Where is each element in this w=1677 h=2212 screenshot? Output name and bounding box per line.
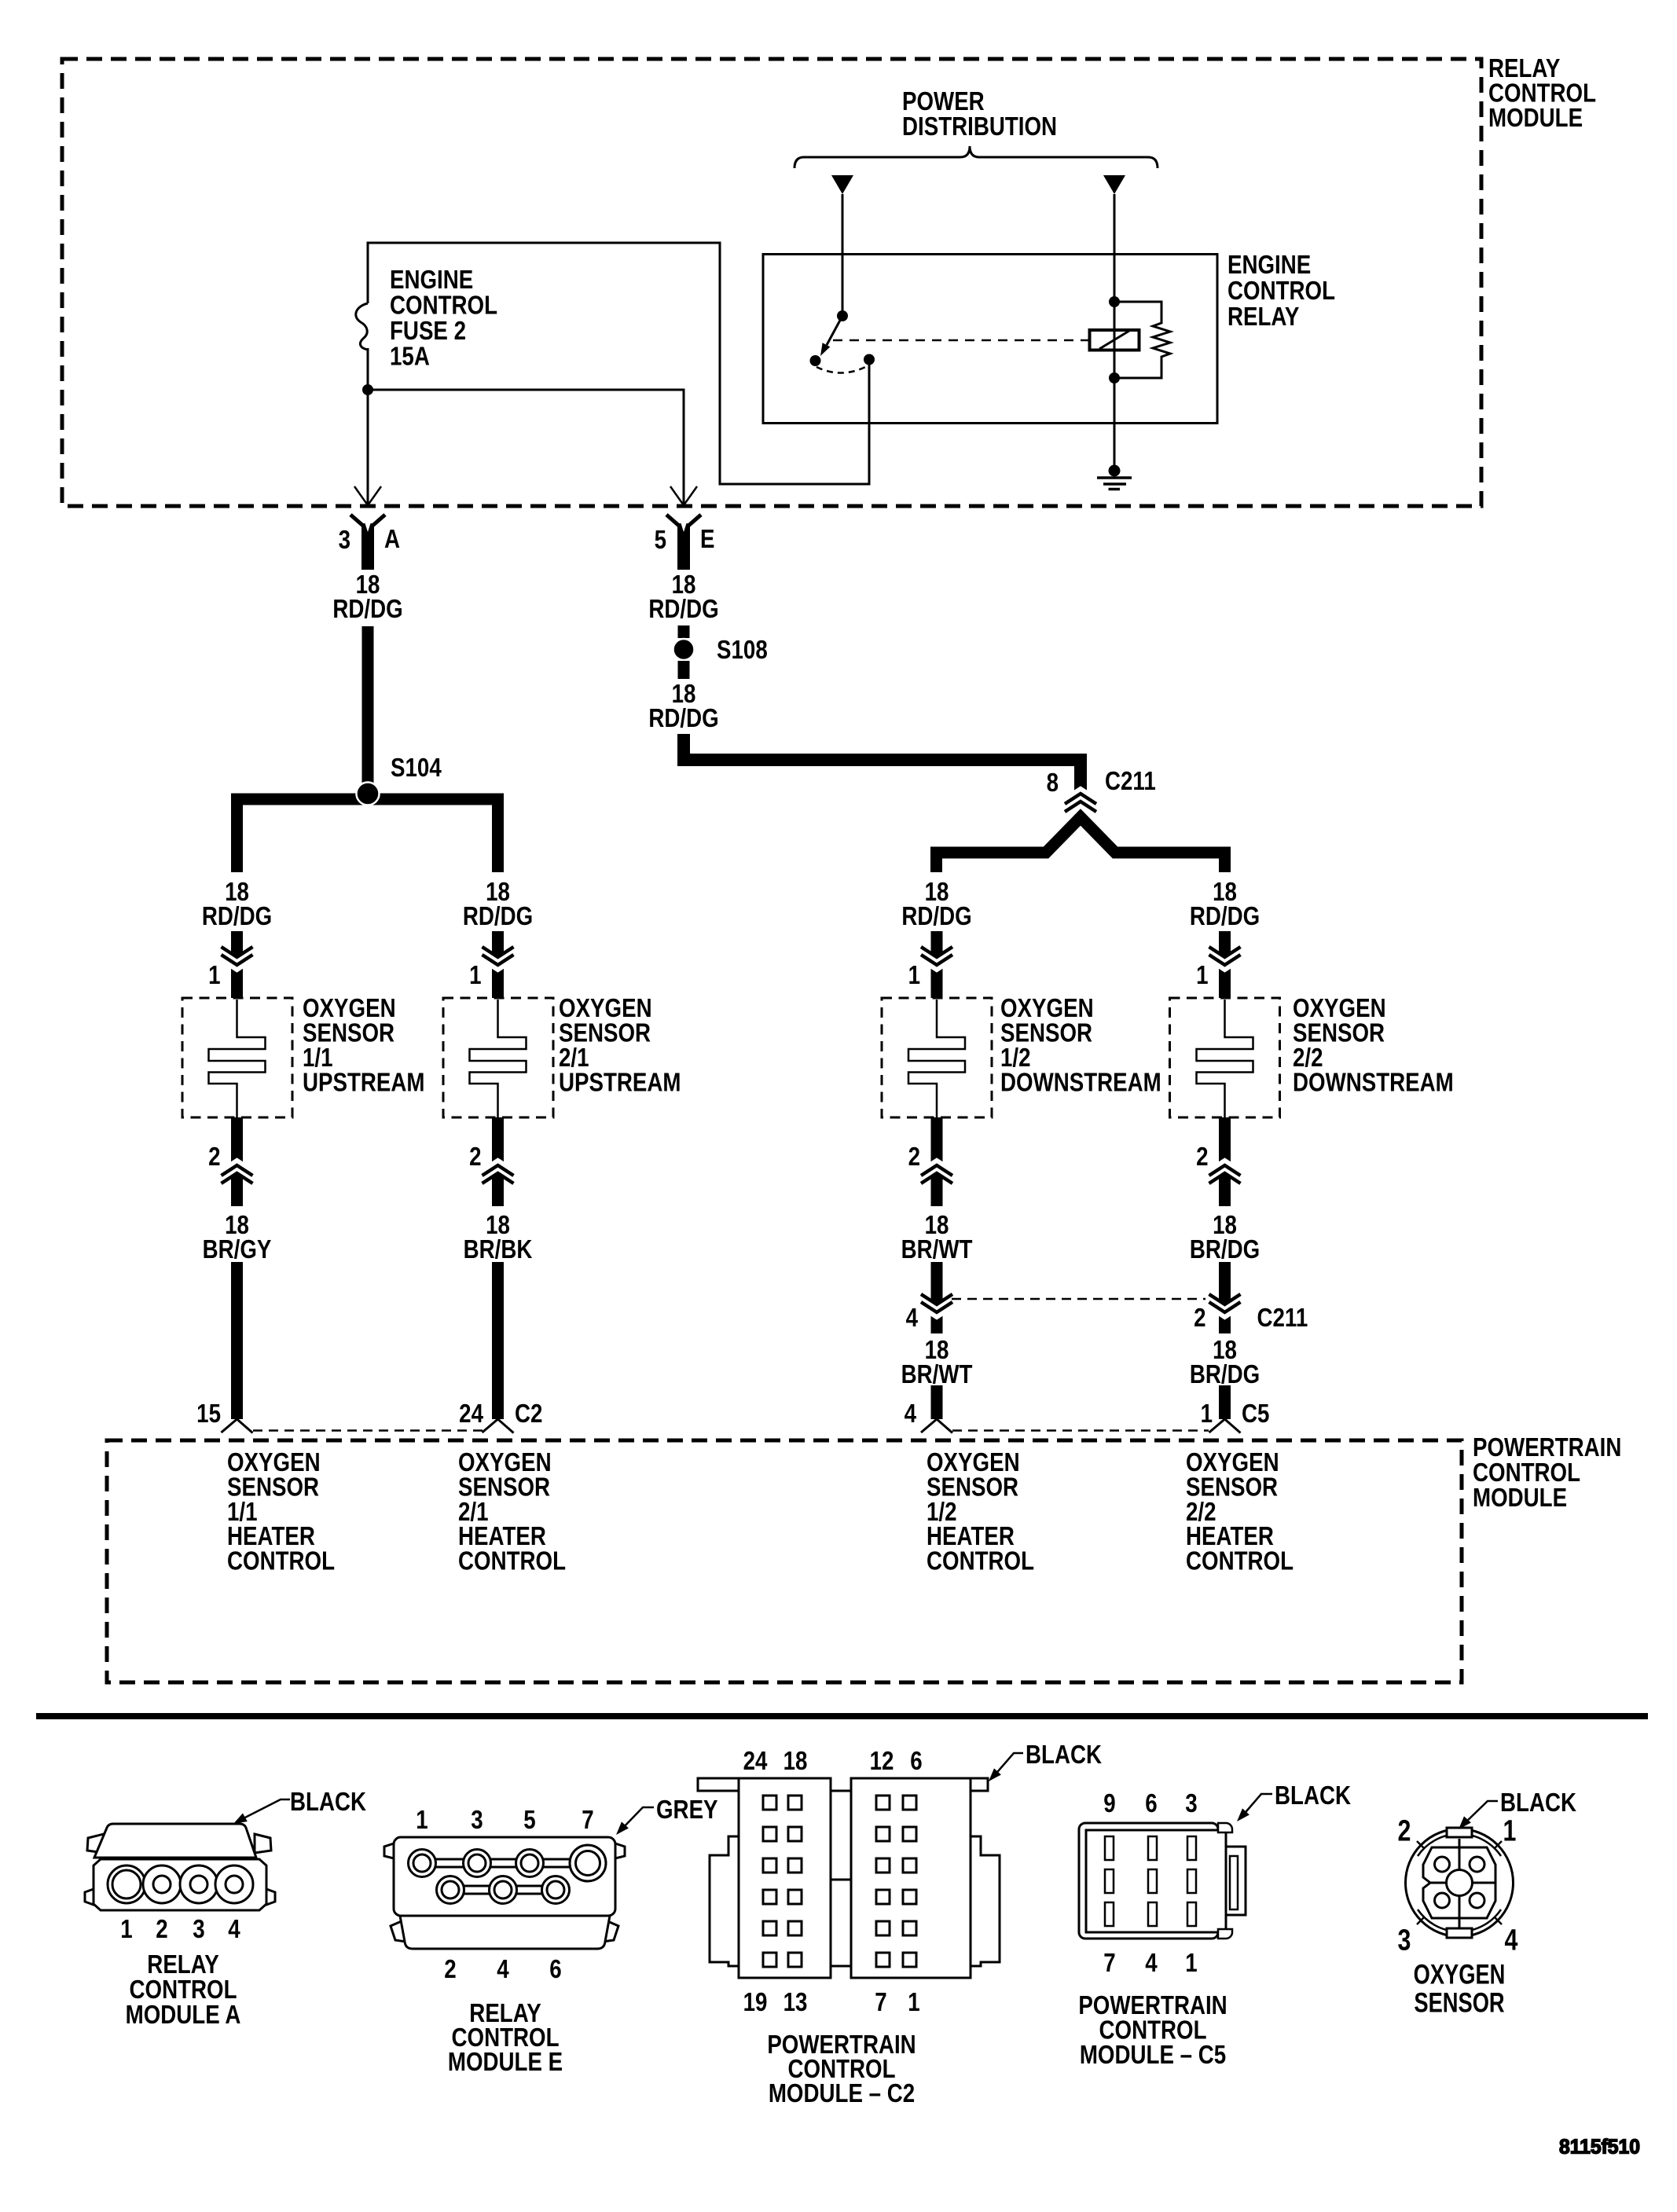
- wire from left feed to relay switch: [842, 194, 844, 314]
- pin label 1: [469, 961, 481, 990]
- svg-text:DOWNSTREAM: DOWNSTREAM: [1000, 1068, 1161, 1097]
- svg-text:4: 4: [497, 1955, 508, 1984]
- PCM connector entry pin 4: [921, 1419, 952, 1433]
- svg-text:RD/DG: RD/DG: [648, 704, 718, 733]
- C211 connector (pin 8) tent and bus to branches 3 and 4: [937, 817, 1225, 872]
- svg-text:2: 2: [1196, 1143, 1208, 1172]
- arrow into pin E: [670, 486, 697, 505]
- wire through coil: [1114, 302, 1116, 378]
- pin label 1: [1196, 961, 1208, 990]
- PCM connector entry pin 24: [483, 1419, 514, 1433]
- wire from right feed to relay coil: [1114, 194, 1116, 302]
- svg-text:2: 2: [469, 1143, 481, 1172]
- svg-text:SENSOR: SENSOR: [1414, 1987, 1505, 2018]
- svg-text:3: 3: [1185, 1789, 1197, 1818]
- svg-text:RD/DG: RD/DG: [1190, 902, 1260, 931]
- svg-text:1: 1: [208, 961, 220, 990]
- pin labels 24 18 12 6: [743, 1747, 923, 1776]
- svg-text:15: 15: [196, 1399, 221, 1429]
- wire label 18 RD/DG (branch 1/2 downstream): [901, 878, 971, 931]
- connector POWERTRAIN CONTROL MODULE C5: [1079, 1823, 1246, 1939]
- svg-text:C211: C211: [1257, 1304, 1308, 1333]
- svg-text:1: 1: [416, 1806, 428, 1835]
- label RELAY CONTROL MODULE: [1488, 54, 1596, 133]
- svg-text:BR/GY: BR/GY: [203, 1235, 272, 1264]
- wire into oxygen sensor 2/1 upstream: [492, 931, 504, 998]
- power feed triangle left: [831, 175, 853, 194]
- label OXYGEN SENSOR 1/2 downstream: [1000, 994, 1161, 1097]
- callout GREY (module E): [616, 1796, 718, 1835]
- label RELAY CONTROL MODULE A: [126, 1950, 241, 2030]
- svg-text:OXYGEN: OXYGEN: [1414, 1959, 1506, 1990]
- label C2 at PCM: [515, 1399, 542, 1429]
- brace under POWER DISTRIBUTION: [794, 146, 1158, 168]
- svg-text:UPSTREAM: UPSTREAM: [303, 1068, 425, 1097]
- svg-text:1: 1: [1503, 1814, 1517, 1847]
- svg-text:BR/DG: BR/DG: [1190, 1235, 1260, 1264]
- connector RELAY CONTROL MODULE E (grey 7-way): [384, 1837, 625, 1949]
- connector OXYGEN SENSOR (black round 4-way): [1406, 1828, 1514, 1938]
- S104 bus wire to branches 1 and 2: [237, 799, 498, 872]
- wire into oxygen sensor 1/1 upstream: [231, 931, 243, 998]
- svg-text:ENGINE: ENGINE: [1227, 251, 1311, 280]
- label OXYGEN SENSOR 2/1 HEATER CONTROL: [458, 1448, 566, 1576]
- heater control wire to PCM (BR/BK): [492, 1262, 504, 1419]
- svg-text:6: 6: [910, 1747, 922, 1776]
- wire label 18 RD/DG (below S108): [648, 680, 718, 733]
- svg-text:RD/DG: RD/DG: [332, 595, 402, 624]
- power feed triangle right: [1103, 175, 1125, 194]
- wire from fuse top to relay common contact: [368, 243, 869, 484]
- svg-text:3: 3: [193, 1915, 204, 1944]
- svg-text:BLACK: BLACK: [1275, 1781, 1351, 1810]
- dashed connector link C2 (pins 15-24): [253, 1429, 483, 1432]
- label OXYGEN SENSOR 1/1 HEATER CONTROL: [227, 1448, 335, 1576]
- label ENGINE CONTROL RELAY: [1227, 251, 1335, 332]
- wire label 18 RD/DG (branch 2/1 upstream): [463, 878, 533, 931]
- relay switch arm with arrow: [820, 316, 842, 356]
- oxygen sensor 2/1 upstream dashed box: [443, 998, 553, 1117]
- pin label 1: [208, 961, 220, 990]
- svg-text:RD/DG: RD/DG: [202, 902, 272, 931]
- wire label 18 BR/WT: [901, 1211, 973, 1264]
- svg-text:19: 19: [743, 1988, 768, 2017]
- wire label 18 RD/DG (branch 2/2 downstream): [1190, 878, 1260, 931]
- wire label 18 BR/BK: [464, 1211, 533, 1264]
- pin label 1: [908, 961, 920, 990]
- svg-text:24: 24: [459, 1399, 483, 1429]
- svg-text:2: 2: [208, 1143, 220, 1172]
- svg-text:4: 4: [1505, 1924, 1518, 1957]
- wire label 18 BR/WT (below C211): [901, 1336, 973, 1389]
- relay coil box: [1090, 330, 1139, 350]
- PCM connector entry pin 1: [1209, 1419, 1241, 1433]
- connector pin 5 E: [666, 515, 701, 570]
- POWERTRAIN CONTROL MODULE dashed box: [107, 1440, 1462, 1682]
- callout BLACK (oxygen sensor): [1459, 1788, 1576, 1829]
- svg-text:C2: C2: [515, 1399, 542, 1429]
- svg-text:MODULE A: MODULE A: [126, 2001, 241, 2030]
- wire label 18 RD/DG (branch 1/1 upstream): [202, 878, 272, 931]
- svg-text:3: 3: [339, 526, 350, 555]
- svg-text:C211: C211: [1105, 767, 1156, 796]
- svg-text:CONTROL: CONTROL: [390, 291, 497, 320]
- svg-text:E: E: [700, 525, 714, 554]
- svg-text:3: 3: [1398, 1924, 1411, 1957]
- svg-text:CONTROL: CONTROL: [1227, 277, 1335, 306]
- svg-text:FUSE 2: FUSE 2: [390, 317, 466, 346]
- svg-text:18: 18: [783, 1747, 808, 1776]
- wire into oxygen sensor 1/2 downstream: [931, 931, 943, 998]
- svg-text:BR/WT: BR/WT: [901, 1360, 973, 1389]
- svg-text:2: 2: [156, 1915, 167, 1944]
- svg-text:DISTRIBUTION: DISTRIBUTION: [902, 112, 1057, 141]
- callout BLACK (C5): [1237, 1781, 1351, 1821]
- label C211: [1257, 1304, 1308, 1333]
- dashed travel arc between contacts: [816, 365, 868, 373]
- PCM connector entry pin 15: [222, 1419, 253, 1433]
- wire from sensor pin 2: [231, 1117, 243, 1206]
- arrow into pin A: [354, 486, 381, 505]
- heater element of oxygen sensor 1/1 upstream: [209, 1000, 266, 1117]
- connector chevrons at sensor pin 2: [921, 1161, 952, 1184]
- label S104: [391, 754, 442, 783]
- label S108: [717, 636, 768, 665]
- heater element of oxygen sensor 2/1 upstream: [470, 1000, 527, 1117]
- svg-text:9: 9: [1103, 1789, 1115, 1818]
- svg-text:1: 1: [1201, 1399, 1213, 1429]
- connector chevrons at sensor pin 1: [1209, 947, 1241, 970]
- pin labels 9 6 3: [1103, 1789, 1197, 1818]
- top module dashed box: RELAY CONTROL MODULE: [62, 59, 1481, 506]
- label OXYGEN SENSOR 1/2 HEATER CONTROL: [927, 1448, 1034, 1576]
- svg-text:2: 2: [1398, 1814, 1411, 1847]
- label POWER DISTRIBUTION: [902, 87, 1057, 141]
- svg-text:3: 3: [471, 1806, 483, 1835]
- label OXYGEN SENSOR 2/2 HEATER CONTROL: [1186, 1448, 1294, 1576]
- svg-text:C5: C5: [1242, 1399, 1269, 1429]
- wire label 18 RD/DG (E branch): [648, 570, 718, 624]
- ground symbol: [1097, 465, 1132, 490]
- pin labels 2 4 6: [444, 1955, 561, 1984]
- svg-text:RELAY: RELAY: [1227, 303, 1299, 332]
- svg-text:RD/DG: RD/DG: [463, 902, 533, 931]
- svg-text:7: 7: [1103, 1949, 1115, 1978]
- splice S108: [673, 639, 695, 660]
- svg-text:24: 24: [743, 1747, 768, 1776]
- wire from sensor pin 2: [1219, 1117, 1231, 1206]
- svg-text:RD/DG: RD/DG: [901, 902, 971, 931]
- svg-text:2: 2: [908, 1143, 920, 1172]
- heater element of oxygen sensor 1/2 downstream: [908, 1000, 965, 1117]
- wire junction to pin A: [367, 390, 369, 504]
- dashed connector link C5 (pins 4-1): [952, 1429, 1209, 1432]
- pin label 2: [1196, 1143, 1208, 1172]
- wire fuse bottom to junction: [367, 348, 369, 390]
- svg-text:CONTROL: CONTROL: [927, 1546, 1034, 1576]
- dashed actuation line from switch to coil: [833, 339, 1089, 342]
- pin label A: [384, 525, 400, 554]
- pin label 4 at C211: [906, 1304, 918, 1333]
- oxygen sensor 2/2 downstream dashed box: [1170, 998, 1280, 1117]
- wire E to connector C211: [684, 734, 1081, 791]
- splice S104: [357, 783, 380, 805]
- svg-text:1: 1: [1185, 1949, 1197, 1978]
- label OXYGEN SENSOR 1/1 upstream: [303, 994, 425, 1097]
- wire from sensor pin 2: [931, 1117, 943, 1206]
- label POWERTRAIN CONTROL MODULE - C5: [1078, 1991, 1227, 2070]
- svg-text:CONTROL: CONTROL: [227, 1546, 335, 1576]
- svg-text:MODULE – C5: MODULE – C5: [1080, 2041, 1226, 2070]
- wire S108 lower stub: [678, 661, 690, 679]
- pin label 8: [1047, 769, 1059, 798]
- svg-text:MODULE E: MODULE E: [448, 2048, 563, 2077]
- connector C211 chevrons: [1209, 1294, 1241, 1317]
- heater control wire to PCM (BR/WT): [931, 1385, 943, 1419]
- heater control wire to PCM (BR/DG): [1219, 1385, 1231, 1419]
- svg-text:DOWNSTREAM: DOWNSTREAM: [1293, 1068, 1454, 1097]
- svg-text:1: 1: [120, 1915, 132, 1944]
- svg-text:MODULE: MODULE: [1473, 1484, 1567, 1513]
- pin label 15: [196, 1399, 221, 1429]
- svg-text:BR/BK: BR/BK: [464, 1235, 533, 1264]
- label OXYGEN SENSOR: [1414, 1959, 1506, 2018]
- heater control wire to PCM (BR/GY): [231, 1262, 243, 1419]
- junction dot at fuse output: [362, 384, 373, 395]
- label OXYGEN SENSOR 2/2 downstream: [1293, 994, 1454, 1097]
- svg-text:BLACK: BLACK: [1026, 1741, 1102, 1770]
- label POWERTRAIN CONTROL MODULE - C2: [767, 2030, 916, 2108]
- pin label 3: [339, 526, 350, 555]
- pin label 5: [655, 526, 666, 555]
- svg-text:CONTROL: CONTROL: [458, 1546, 566, 1576]
- pin labels 1 2 3 4: [120, 1915, 240, 1944]
- connector C211 chevrons: [921, 1294, 952, 1317]
- connector chevrons at sensor pin 2: [483, 1161, 514, 1184]
- wire label 18 BR/DG (below C211): [1190, 1336, 1260, 1389]
- connector RELAY CONTROL MODULE A (black 4-way): [85, 1824, 275, 1910]
- svg-text:MODULE – C2: MODULE – C2: [769, 2079, 915, 2108]
- pin labels 19 13 7 1: [743, 1988, 920, 2017]
- figure number 8115f510: [1559, 2136, 1640, 2159]
- callout BLACK (C2): [989, 1741, 1102, 1781]
- svg-text:BR/DG: BR/DG: [1190, 1360, 1260, 1389]
- heater wire to connector C211: [1219, 1262, 1231, 1333]
- label RELAY CONTROL MODULE E: [448, 1999, 563, 2077]
- wire label 18 BR/GY: [203, 1211, 272, 1264]
- svg-text:1: 1: [908, 1988, 919, 2017]
- svg-text:2: 2: [1194, 1304, 1205, 1333]
- coil upper node dot: [1109, 296, 1120, 307]
- relay switch pivot dot: [837, 310, 848, 321]
- svg-text:7: 7: [582, 1806, 593, 1835]
- wire coil to ground: [1114, 378, 1116, 468]
- pin labels 7 4 1: [1103, 1949, 1197, 1978]
- svg-text:4: 4: [1145, 1949, 1157, 1978]
- svg-text:1: 1: [1196, 961, 1208, 990]
- svg-text:MODULE: MODULE: [1488, 104, 1583, 133]
- pin labels 1 3 5 7: [416, 1806, 593, 1835]
- pin label 24: [459, 1399, 483, 1429]
- svg-text:ENGINE: ENGINE: [390, 266, 473, 295]
- connector chevrons at sensor pin 1: [483, 947, 514, 970]
- svg-text:4: 4: [906, 1304, 918, 1333]
- label C211: [1105, 767, 1156, 796]
- pin labels 2 1 3 4: [1398, 1814, 1518, 1957]
- svg-text:S108: S108: [717, 636, 768, 665]
- connector chevrons at sensor pin 2: [222, 1161, 253, 1184]
- dashed connector link C211 (pins 4-2): [952, 1298, 1205, 1300]
- wire junction to pin E: [368, 390, 684, 504]
- connector chevrons at sensor pin 1: [222, 947, 253, 970]
- svg-text:7: 7: [875, 1988, 886, 2017]
- connector pin 3 A: [350, 515, 385, 570]
- oxygen sensor 1/2 downstream dashed box: [882, 998, 992, 1117]
- svg-text:8115f510: 8115f510: [1559, 2136, 1640, 2159]
- svg-text:15A: 15A: [390, 342, 430, 371]
- svg-text:BLACK: BLACK: [1500, 1788, 1576, 1818]
- svg-text:5: 5: [523, 1806, 535, 1835]
- heater element of oxygen sensor 2/2 downstream: [1197, 1000, 1253, 1117]
- connector chevrons at sensor pin 1: [921, 947, 952, 970]
- connector chevrons at sensor pin 2: [1209, 1161, 1241, 1184]
- svg-text:S104: S104: [391, 754, 442, 783]
- pin label 2: [908, 1143, 920, 1172]
- fuse label ENGINE CONTROL FUSE 2 15A: [390, 266, 497, 371]
- ENGINE CONTROL RELAY box: [763, 255, 1217, 424]
- wire E upper stub: [678, 625, 690, 638]
- C211 connector chevrons: [1065, 790, 1096, 813]
- callout BLACK (module A): [233, 1788, 366, 1824]
- svg-text:BR/WT: BR/WT: [901, 1235, 973, 1264]
- svg-text:GREY: GREY: [656, 1796, 718, 1825]
- suppression resistor parallel to coil: [1114, 302, 1170, 378]
- svg-text:1: 1: [469, 961, 481, 990]
- label POWERTRAIN CONTROL MODULE: [1473, 1433, 1621, 1513]
- svg-text:1: 1: [908, 961, 920, 990]
- pin label 2 at C211: [1194, 1304, 1205, 1333]
- svg-text:4: 4: [228, 1915, 240, 1944]
- label OXYGEN SENSOR 2/1 upstream: [559, 994, 681, 1097]
- coil lower node dot: [1109, 372, 1120, 383]
- pin label E: [700, 525, 714, 554]
- svg-text:6: 6: [1145, 1789, 1157, 1818]
- svg-text:6: 6: [549, 1955, 561, 1984]
- wire into oxygen sensor 2/2 downstream: [1219, 931, 1231, 998]
- svg-text:12: 12: [870, 1747, 894, 1776]
- svg-text:2: 2: [444, 1955, 456, 1984]
- relay switch contact dot right (to fuse): [864, 354, 875, 365]
- svg-text:4: 4: [905, 1399, 916, 1429]
- pin label 4: [905, 1399, 916, 1429]
- svg-text:8: 8: [1047, 769, 1059, 798]
- separator line: [36, 1713, 1648, 1719]
- pin label 1: [1201, 1399, 1213, 1429]
- heater wire to connector C211: [931, 1262, 943, 1333]
- svg-text:5: 5: [655, 526, 666, 555]
- svg-text:CONTROL: CONTROL: [1186, 1546, 1294, 1576]
- svg-text:UPSTREAM: UPSTREAM: [559, 1068, 681, 1097]
- svg-text:RD/DG: RD/DG: [648, 595, 718, 624]
- svg-text:13: 13: [783, 1988, 808, 2017]
- label C5 at PCM: [1242, 1399, 1269, 1429]
- svg-text:A: A: [384, 525, 400, 554]
- pin label 2: [469, 1143, 481, 1172]
- wire label 18 BR/DG: [1190, 1211, 1260, 1264]
- connector POWERTRAIN CONTROL MODULE C2: [698, 1778, 1000, 1978]
- fuse F2 element: [356, 303, 368, 350]
- relay switch contact dot left: [810, 355, 821, 366]
- oxygen sensor 1/1 upstream dashed box: [182, 998, 292, 1117]
- pin label 2: [208, 1143, 220, 1172]
- wire A to splice S104: [362, 626, 374, 787]
- svg-text:BLACK: BLACK: [290, 1788, 366, 1817]
- wire label 18 RD/DG (A branch): [332, 570, 402, 624]
- wire from sensor pin 2: [492, 1117, 504, 1206]
